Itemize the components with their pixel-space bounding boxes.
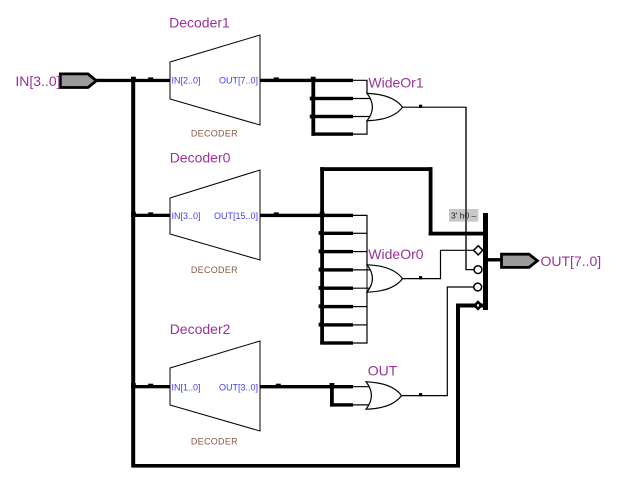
tap mark Decoder1 output	[274, 77, 279, 80]
ripper circle WideOr1 bit	[474, 266, 482, 274]
wire WideOr1 lead 2	[353, 98, 372, 100]
wire main input bus vertical	[131, 79, 135, 468]
input port IN[3..0]	[60, 74, 96, 88]
wire input to Decoder1	[96, 79, 170, 82]
svg-text:DECODER: DECODER	[191, 265, 238, 275]
dot WideOr0 output	[419, 276, 422, 279]
wire Decoder1 output	[260, 79, 353, 82]
junction Decoder1 comb top	[311, 77, 316, 82]
bump Decoder0 stub3	[319, 249, 323, 253]
wire WideOr1 lead 3	[353, 116, 372, 118]
svg-text:Decoder1: Decoder1	[169, 15, 230, 31]
svg-text:IN[1..0]: IN[1..0]	[172, 383, 201, 393]
wire bottom riser	[456, 304, 460, 468]
tap mark Decoder2 output	[276, 384, 281, 387]
svg-text:OUT: OUT	[368, 362, 398, 378]
wire bottom run	[132, 464, 460, 468]
junction at input bus top	[131, 77, 136, 82]
wire WideOr1 lead 4	[353, 121, 367, 134]
bump Decoder0 stub5	[319, 286, 323, 290]
output bus vertical	[483, 213, 488, 310]
svg-text:3' h0 –: 3' h0 –	[451, 211, 477, 221]
wire Decoder0 stub 2	[320, 232, 353, 235]
decoder U Decoder1 body	[170, 35, 260, 125]
wire WideOr1 output	[403, 107, 474, 269]
bump Decoder0 stub4	[319, 268, 323, 272]
dot WideOr1 output	[419, 105, 422, 108]
wire to output port	[488, 258, 502, 261]
wire Decoder0 stub 8	[320, 341, 353, 344]
wire Decoder2 stub 2	[330, 403, 353, 406]
wire WideOr0 lead 1	[353, 215, 367, 264]
decoder U Decoder2 body	[170, 341, 260, 431]
wire Decoder0 stub 6	[320, 305, 353, 308]
bump Decoder0 stub6	[319, 304, 323, 308]
wire Decoder0 top run	[320, 167, 432, 171]
wire OUT output	[402, 287, 474, 396]
junction at Decoder0 branch	[131, 212, 136, 217]
svg-text:WideOr0: WideOr0	[368, 246, 423, 262]
tap mark Decoder1 input	[148, 77, 153, 80]
wire OUT lead 1	[353, 386, 371, 388]
wire Decoder0 stub 4	[320, 268, 353, 271]
bump Decoder0 stub7	[319, 323, 323, 327]
wire Decoder0 comb bus	[320, 167, 324, 344]
wire Decoder0 to out bus	[429, 232, 484, 236]
wire WideOr0 lead 2	[353, 232, 367, 234]
ripper solid diamond center	[477, 304, 479, 306]
svg-text:IN[2..0]: IN[2..0]	[172, 76, 201, 86]
wire Decoder0 stub 5	[320, 287, 353, 290]
svg-text:OUT[3..0]: OUT[3..0]	[219, 383, 258, 393]
wire Decoder0 output	[260, 214, 353, 217]
junction at Decoder2 branch	[131, 383, 136, 388]
svg-text:IN[3..0]: IN[3..0]	[15, 73, 60, 89]
or-gate OUT	[366, 382, 402, 409]
svg-text:DECODER: DECODER	[191, 436, 238, 446]
tap mark Decoder0 input	[148, 212, 153, 215]
bump Decoder0 stub2	[319, 231, 323, 235]
wire Decoder0 stub 3	[320, 250, 353, 253]
wire Decoder1 stub 3	[311, 115, 353, 118]
wire WideOr0 lead 8	[353, 292, 367, 343]
wire WideOr0 lead 6	[353, 306, 367, 308]
svg-text:Decoder0: Decoder0	[170, 149, 231, 165]
dot OUT output	[419, 393, 422, 396]
svg-text:OUT[15..0]: OUT[15..0]	[214, 211, 258, 221]
svg-text:DECODER: DECODER	[191, 129, 238, 139]
wire OUT lead 2	[353, 404, 371, 406]
wire WideOr0 lead 4	[353, 269, 372, 271]
wire Decoder0 right riser	[429, 167, 433, 235]
svg-text:OUT[7..0]: OUT[7..0]	[541, 253, 602, 269]
bump Decoder1 stub3	[310, 115, 314, 119]
junction Decoder2 comb top	[330, 383, 335, 388]
wire through constant	[465, 107, 467, 269]
or-gate WideOr1	[367, 93, 403, 120]
wire WideOr0 lead 7	[353, 324, 367, 326]
svg-text:IN[3..0]: IN[3..0]	[172, 211, 201, 221]
junction Decoder0 comb cross	[320, 212, 325, 217]
wire WideOr0 lead 3	[353, 251, 367, 253]
wire Decoder1 stub 2	[311, 97, 353, 100]
output port OUT[7..0]	[502, 254, 538, 267]
svg-text:OUT[7..0]: OUT[7..0]	[219, 76, 258, 86]
decoder U Decoder0 body	[170, 170, 260, 260]
wire Decoder2 comb bus	[330, 385, 334, 407]
wire branch to Decoder0	[131, 214, 170, 217]
wire Decoder0 stub 7	[320, 323, 353, 326]
bump Decoder1 stub2	[310, 97, 314, 101]
svg-text:Decoder2: Decoder2	[170, 321, 231, 337]
or-gate WideOr0	[367, 265, 403, 292]
tap mark Decoder0 output	[274, 212, 279, 215]
wire WideOr0 spine	[366, 215, 368, 343]
wire riser to bus	[456, 304, 484, 308]
wire WideOr1 lead 1	[353, 80, 367, 93]
wire WideOr0 lead 5	[353, 287, 372, 289]
wire Decoder1 stub 4	[311, 132, 353, 135]
constant 3'h0 label	[449, 209, 478, 222]
svg-text:WideOr1: WideOr1	[368, 75, 423, 91]
wire Decoder2 output	[260, 385, 353, 388]
ripper diamond WideOr0 bit	[474, 246, 483, 255]
ripper circle OUT bit	[474, 283, 482, 291]
tap mark Decoder2 input	[148, 384, 153, 387]
ripper solid diamond bottom	[473, 300, 483, 310]
wire Decoder1 comb bus	[311, 79, 315, 136]
wire branch to Decoder2	[131, 385, 170, 388]
wire WideOr0 output	[403, 250, 474, 278]
